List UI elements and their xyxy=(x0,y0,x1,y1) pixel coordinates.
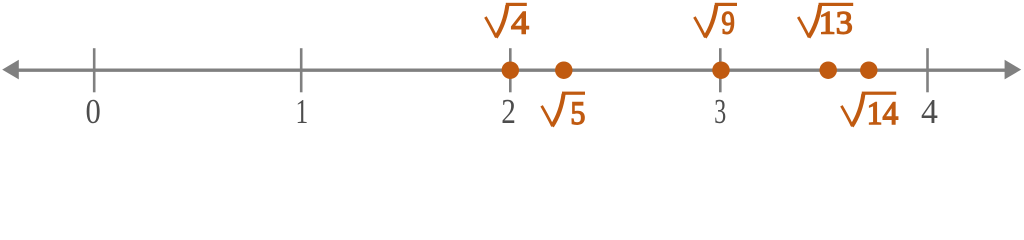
axis label 0 xyxy=(86,92,101,131)
tick mark 0 xyxy=(93,48,96,92)
svg-text:2: 2 xyxy=(501,92,516,131)
label sqrt(14) xyxy=(841,92,898,133)
svg-text:4: 4 xyxy=(511,6,529,42)
svg-text:4: 4 xyxy=(921,92,938,131)
axis label 2 xyxy=(501,92,516,131)
point sqrt(5) xyxy=(555,61,573,79)
tick mark 4 xyxy=(926,48,929,92)
label sqrt(4) xyxy=(485,3,529,42)
svg-text:1: 1 xyxy=(295,92,308,131)
point sqrt(13) xyxy=(819,61,837,79)
label sqrt(13) xyxy=(798,3,853,42)
number line axis xyxy=(12,68,1012,71)
svg-text:13: 13 xyxy=(819,6,853,42)
tick mark 1 xyxy=(300,48,303,92)
axis label 3 xyxy=(714,92,726,131)
svg-text:5: 5 xyxy=(570,96,585,132)
right arrowhead xyxy=(1005,60,1022,80)
label sqrt(5) xyxy=(542,92,586,133)
tick mark 2 xyxy=(509,48,512,92)
point sqrt(4) xyxy=(502,61,520,79)
point sqrt(14) xyxy=(860,61,878,79)
svg-text:3: 3 xyxy=(714,92,726,131)
label sqrt(9) xyxy=(694,3,737,42)
left arrowhead xyxy=(2,60,19,80)
svg-text:0: 0 xyxy=(86,92,101,131)
svg-text:9: 9 xyxy=(721,6,734,42)
tick mark 3 xyxy=(719,48,722,92)
point sqrt(9) xyxy=(712,61,730,79)
axis label 1 xyxy=(295,92,308,131)
svg-text:14: 14 xyxy=(867,96,899,132)
axis label 4 xyxy=(921,92,938,131)
